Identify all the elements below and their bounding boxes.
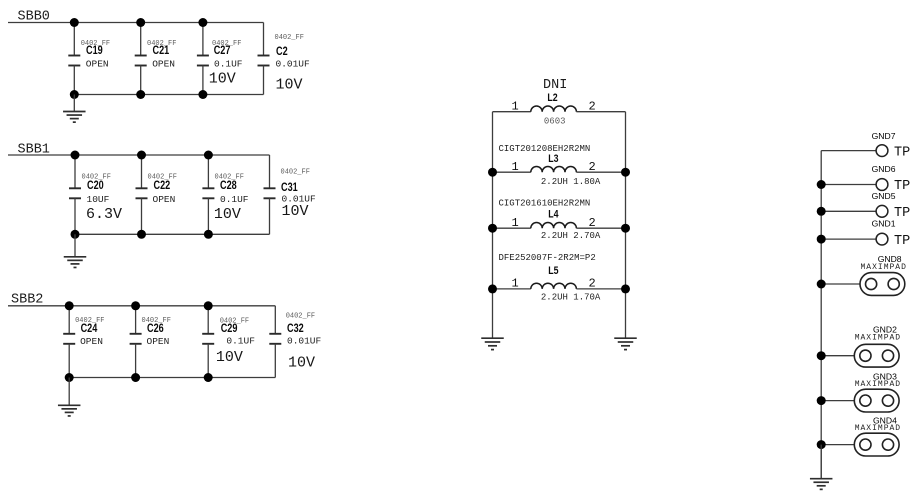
junction at bottom rail x=208.2 <box>204 373 213 382</box>
svg-text:OPEN: OPEN <box>153 194 176 205</box>
wire GND8 stub <box>821 283 860 285</box>
pad GND3 MAXIMPAD outline <box>854 389 899 412</box>
junction at bottom rail x=140.7 <box>136 90 145 99</box>
capacitor C2 <box>258 23 270 95</box>
testpoint GND6 pad circle <box>876 179 888 191</box>
wire SBB0 right drop to C bottom rail <box>74 94 263 96</box>
testpoint GND7 pad circle <box>876 145 888 157</box>
testpoint GND1 pad circle <box>876 233 888 245</box>
capacitor C22 <box>136 155 148 234</box>
svg-text:0402_FF: 0402_FF <box>281 169 310 177</box>
svg-text:DFE252007F-2R2M=P2: DFE252007F-2R2M=P2 <box>499 253 596 263</box>
wire GND5 stub <box>821 210 876 212</box>
svg-text:GND6: GND6 <box>872 164 896 174</box>
svg-text:C26: C26 <box>147 322 164 336</box>
ground of SBB0 bank <box>63 112 86 123</box>
svg-text:C28: C28 <box>220 179 237 193</box>
junction at top rail x=208.2 <box>204 301 213 310</box>
wire L5 pin 2 lead <box>576 288 625 290</box>
svg-text:L2: L2 <box>547 92 558 104</box>
svg-text:C27: C27 <box>214 44 231 58</box>
pad GND8 MAXIMPAD outline <box>860 273 905 296</box>
pad GND4 left hole <box>860 439 871 450</box>
pad GND2 left hole <box>860 350 871 361</box>
svg-text:C21: C21 <box>153 44 170 58</box>
svg-text:0603: 0603 <box>544 117 566 127</box>
inductor L5 coil <box>531 283 577 289</box>
svg-text:C32: C32 <box>287 322 304 336</box>
capacitor C28 <box>202 155 214 234</box>
wire L2 pin 1 lead <box>493 111 531 113</box>
ground left of inductor ladder <box>481 338 504 349</box>
svg-text:10V: 10V <box>288 355 315 372</box>
svg-text:0.01UF: 0.01UF <box>287 335 322 346</box>
junction at top rail x=75.0 <box>71 151 80 160</box>
pad GND8 left hole <box>866 278 877 289</box>
ground of testpoint rail <box>810 479 833 490</box>
capacitor C32 <box>269 306 281 378</box>
inductor L2 coil <box>531 106 577 112</box>
svg-text:OPEN: OPEN <box>86 58 109 69</box>
svg-text:10V: 10V <box>209 71 236 88</box>
svg-text:GND1: GND1 <box>872 219 896 229</box>
svg-text:L5: L5 <box>548 265 559 277</box>
wire GND6 stub <box>821 184 876 186</box>
svg-text:10V: 10V <box>276 77 303 94</box>
junction L3 pin2 on right rail <box>621 168 630 177</box>
junction GND5 on rail <box>817 207 826 216</box>
capacitor C27 <box>197 23 209 95</box>
inductor L3 coil <box>531 167 577 173</box>
junction GND2 on rail <box>817 351 826 360</box>
wire GND1 stub <box>821 238 876 240</box>
svg-text:2.2UH 1.70A: 2.2UH 1.70A <box>541 292 601 302</box>
svg-text:C22: C22 <box>154 179 171 193</box>
svg-text:2.2UH 2.70A: 2.2UH 2.70A <box>541 231 601 241</box>
svg-text:GND5: GND5 <box>872 191 896 201</box>
wire left vertical rail (inductor ladder) <box>492 112 494 339</box>
wire L3 pin 2 lead <box>576 171 625 173</box>
svg-text:TP: TP <box>894 234 910 249</box>
svg-text:SBB2: SBB2 <box>11 292 43 307</box>
svg-text:MAXIMPAD: MAXIMPAD <box>855 424 901 433</box>
svg-text:C2: C2 <box>276 45 288 59</box>
wire L2 pin 2 lead <box>576 111 625 113</box>
ground of SBB1 bank <box>64 257 87 268</box>
capacitor C24 <box>63 306 75 378</box>
ground of SBB2 bank <box>58 405 80 416</box>
junction GND1 on rail <box>817 235 826 244</box>
svg-text:TP: TP <box>894 145 910 160</box>
junction at bottom rail x=75.0 <box>71 230 80 239</box>
svg-text:GND7: GND7 <box>872 131 896 141</box>
capacitor C21 <box>135 23 147 95</box>
svg-text:OPEN: OPEN <box>80 336 103 347</box>
junction at top rail x=208.4 <box>204 151 213 160</box>
svg-text:0.1UF: 0.1UF <box>220 194 249 205</box>
svg-text:0402_FF: 0402_FF <box>286 313 315 321</box>
svg-text:10V: 10V <box>282 203 309 220</box>
junction L5 pin1 on left rail <box>488 284 497 293</box>
svg-text:C19: C19 <box>86 44 103 58</box>
svg-text:0.1UF: 0.1UF <box>226 335 255 346</box>
junction at top rail x=140.7 <box>136 18 145 27</box>
pad GND3 left hole <box>860 395 871 406</box>
svg-text:2.2UH 1.80A: 2.2UH 1.80A <box>541 177 601 187</box>
junction at bottom rail x=69.2 <box>65 373 74 382</box>
svg-text:MAXIMPAD: MAXIMPAD <box>855 334 901 343</box>
svg-text:0.01UF: 0.01UF <box>276 58 311 69</box>
svg-text:L3: L3 <box>548 153 559 165</box>
junction GND4 on rail <box>817 440 826 449</box>
svg-text:CIGT201610EH2R2MN: CIGT201610EH2R2MN <box>499 199 591 209</box>
svg-text:C20: C20 <box>87 179 104 193</box>
svg-text:10UF: 10UF <box>87 194 110 205</box>
wire L4 pin 2 lead <box>576 227 625 229</box>
testpoint GND5 pad circle <box>876 205 888 217</box>
svg-text:OPEN: OPEN <box>152 58 175 69</box>
pad GND4 right hole <box>882 439 893 450</box>
wire L5 pin 1 lead <box>493 288 531 290</box>
svg-text:L4: L4 <box>548 209 559 221</box>
wire GND2 stub <box>821 355 854 357</box>
capacitor C29 <box>202 306 214 378</box>
junction at top rail x=141.5 <box>137 151 146 160</box>
svg-text:DNI: DNI <box>543 78 567 93</box>
wire testpoint ground rail <box>820 151 822 479</box>
wire SBB1 top rail <box>8 154 270 156</box>
ground right of inductor ladder <box>614 338 637 349</box>
junction L4 pin2 on right rail <box>621 224 630 233</box>
svg-text:C31: C31 <box>281 181 298 195</box>
svg-text:MAXIMPAD: MAXIMPAD <box>855 380 901 389</box>
svg-text:C24: C24 <box>81 322 98 336</box>
inductor L4 coil <box>531 223 577 229</box>
wire SBB2 top rail <box>8 305 275 307</box>
wire GND3 stub <box>821 400 854 402</box>
wire ground stem of testpoint rail <box>820 445 822 479</box>
svg-text:CIGT201208EH2R2MN: CIGT201208EH2R2MN <box>499 144 591 154</box>
wire GND7 stub <box>821 150 876 152</box>
junction L5 pin2 on right rail <box>621 284 630 293</box>
junction GND6 on rail <box>817 180 826 189</box>
wire GND4 stub <box>821 444 854 446</box>
pad GND8 right hole <box>888 278 899 289</box>
junction at bottom rail x=135.6 <box>131 373 140 382</box>
wire SBB0 top rail <box>8 22 264 24</box>
capacitor C19 <box>68 23 80 95</box>
svg-text:OPEN: OPEN <box>147 336 170 347</box>
pad GND2 right hole <box>882 350 893 361</box>
capacitor C20 <box>69 155 81 234</box>
pad GND2 MAXIMPAD outline <box>854 344 899 367</box>
junction L3 pin1 on left rail <box>488 168 497 177</box>
wire L3 pin 1 lead <box>493 171 531 173</box>
junction at bottom rail x=208.4 <box>204 230 213 239</box>
pad GND4 MAXIMPAD outline <box>854 433 899 456</box>
capacitor C31 <box>264 155 276 234</box>
capacitor C26 <box>130 306 142 378</box>
pad GND3 right hole <box>882 395 893 406</box>
wire SBB1 right drop to C bottom rail <box>75 233 270 235</box>
junction L4 pin1 on left rail <box>488 224 497 233</box>
junction at top rail x=74.3 <box>70 18 79 27</box>
svg-text:0402_FF: 0402_FF <box>275 34 304 42</box>
svg-text:10V: 10V <box>214 206 241 223</box>
svg-text:C29: C29 <box>221 322 238 336</box>
wire right vertical rail (inductor ladder) <box>625 112 627 339</box>
svg-text:10V: 10V <box>216 349 243 366</box>
junction GND3 on rail <box>817 396 826 405</box>
wire ground stem SBB1 <box>74 234 76 256</box>
wire ground stem SBB2 <box>68 378 70 406</box>
junction at bottom rail x=202.9 <box>198 90 207 99</box>
junction GND8 on rail <box>817 280 826 289</box>
junction at top rail x=202.9 <box>198 18 207 27</box>
junction at bottom rail x=74.3 <box>70 90 79 99</box>
wire ground stem SBB0 <box>73 95 75 112</box>
svg-text:6.3V: 6.3V <box>86 206 122 223</box>
svg-text:TP: TP <box>894 206 910 221</box>
svg-text:TP: TP <box>894 179 910 194</box>
svg-text:0.1UF: 0.1UF <box>214 58 243 69</box>
svg-text:MAXIMPAD: MAXIMPAD <box>861 263 907 272</box>
junction at top rail x=69.2 <box>65 301 74 310</box>
junction at top rail x=135.6 <box>131 301 140 310</box>
junction at bottom rail x=141.5 <box>137 230 146 239</box>
wire SBB2 right drop to C bottom rail <box>69 377 275 379</box>
wire L4 pin 1 lead <box>493 227 531 229</box>
